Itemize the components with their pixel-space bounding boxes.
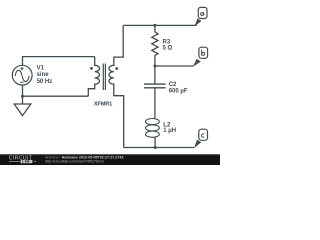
svg-text:http://circuitlab.com/cse279f5: http://circuitlab.com/cse279f5276bc2 bbox=[45, 160, 104, 164]
svg-text:XFMR1: XFMR1 bbox=[94, 101, 112, 107]
svg-text:5 Ω: 5 Ω bbox=[163, 46, 173, 52]
svg-text:50 Hz: 50 Hz bbox=[37, 79, 53, 85]
svg-text:sine: sine bbox=[37, 72, 50, 78]
svg-text:1 µH: 1 µH bbox=[163, 128, 176, 134]
svg-text:600 µF: 600 µF bbox=[169, 89, 188, 95]
svg-text:V1: V1 bbox=[37, 66, 45, 72]
svg-text:LAB: LAB bbox=[22, 160, 30, 164]
svg-text:C2: C2 bbox=[169, 82, 177, 88]
